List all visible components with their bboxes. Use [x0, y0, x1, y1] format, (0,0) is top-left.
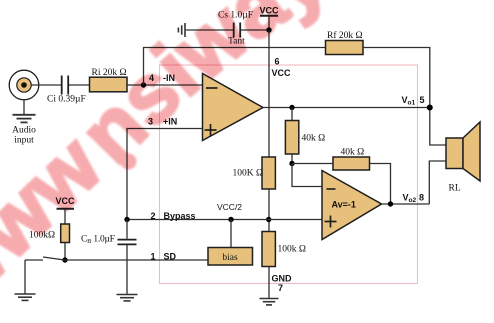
power VCC (left)	[55, 196, 75, 224]
wire	[126, 244, 128, 294]
svg-text:40k Ω: 40k Ω	[302, 134, 326, 144]
svg-text:8: 8	[419, 193, 424, 203]
node bypass rail	[266, 217, 271, 222]
ground (sideways) for Cs	[178, 23, 185, 37]
wire	[64, 243, 66, 261]
wire	[241, 29, 269, 31]
wire	[292, 163, 333, 165]
wire Vo2	[382, 203, 430, 205]
IC boundary box	[160, 65, 418, 284]
ground	[15, 294, 36, 300]
wire	[186, 29, 233, 31]
ground	[13, 115, 36, 123]
node SD	[62, 257, 67, 262]
svg-text:bias: bias	[222, 253, 238, 263]
wire Vo1	[263, 107, 430, 109]
wire	[370, 164, 391, 205]
switch S1	[25, 259, 43, 261]
svg-text:GND: GND	[272, 274, 293, 284]
wire to op2 inverting input	[292, 164, 322, 187]
wire	[24, 260, 26, 294]
wire SD	[65, 259, 208, 261]
svg-text:100k Ω: 100k Ω	[278, 245, 306, 255]
node VCC junction	[266, 27, 271, 32]
node VCC/2	[228, 217, 233, 222]
svg-text:6: 6	[275, 57, 280, 67]
wire	[291, 154, 293, 164]
connector J1 audio input	[9, 70, 39, 100]
wire	[268, 267, 270, 299]
svg-text:Rf 20k Ω: Rf 20k Ω	[327, 30, 363, 41]
wire	[31, 84, 62, 86]
ground	[117, 295, 138, 301]
svg-text:100K Ω: 100K Ω	[233, 169, 264, 179]
node Vo1	[427, 105, 433, 111]
resistor R40k-2 (horizontal)	[333, 157, 370, 170]
resistor R100k (pullup)	[61, 224, 70, 243]
op-amp U1B Av=-1	[322, 171, 382, 240]
wire	[429, 161, 446, 204]
node Vo2	[388, 201, 393, 206]
node	[289, 105, 294, 110]
wire	[69, 84, 90, 86]
op-amp U1A	[203, 74, 264, 141]
speaker RL	[446, 122, 480, 181]
capacitor CB	[126, 220, 128, 239]
wire	[363, 48, 446, 146]
svg-text:5: 5	[420, 95, 425, 105]
wire	[268, 189, 270, 232]
resistor R40k-1 (vertical)	[285, 121, 298, 155]
resistor R100K (upper)	[262, 157, 275, 189]
capacitor Cs	[234, 23, 241, 38]
wire +IN	[127, 129, 203, 220]
svg-text:7: 7	[278, 283, 283, 293]
node -IN junction	[141, 82, 146, 87]
svg-text:CB 1.0µF: CB 1.0µF	[81, 235, 115, 246]
svg-text:1: 1	[151, 252, 156, 262]
svg-text:RL: RL	[449, 184, 461, 194]
resistor Ri	[90, 77, 128, 92]
svg-text:Audio: Audio	[12, 126, 36, 136]
svg-text:2: 2	[151, 211, 156, 221]
capacitor Ci	[62, 76, 68, 95]
resistor R100k (lower)	[262, 232, 275, 267]
svg-text:Av=-1: Av=-1	[332, 200, 356, 210]
wire	[23, 100, 25, 114]
node	[124, 217, 129, 222]
wire	[291, 108, 293, 121]
wire	[230, 220, 232, 248]
node	[289, 161, 294, 166]
power VCC (top)	[259, 6, 279, 31]
svg-text:Bypass: Bypass	[164, 211, 196, 221]
wire feedback	[144, 48, 326, 86]
svg-text:SD: SD	[164, 252, 177, 262]
wire bypass rail	[127, 219, 322, 221]
svg-text:VCC: VCC	[272, 68, 292, 78]
svg-text:VCC/2: VCC/2	[217, 202, 242, 212]
wire VCC rail down	[268, 30, 270, 157]
svg-text:40k Ω: 40k Ω	[341, 148, 365, 158]
resistor Rf	[326, 41, 364, 55]
wire	[127, 84, 203, 86]
ground	[260, 299, 279, 305]
bias block	[208, 248, 253, 266]
